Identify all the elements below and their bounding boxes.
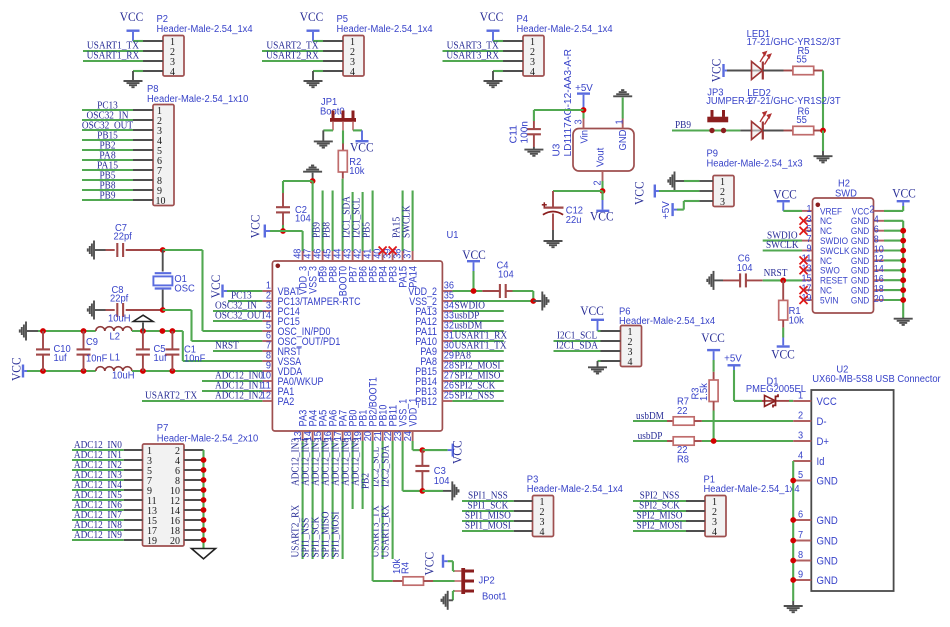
svg-text:Vin: Vin bbox=[580, 130, 591, 144]
ground at U2 bbox=[784, 606, 803, 612]
svg-text:104: 104 bbox=[498, 270, 514, 281]
svg-text:D-: D- bbox=[817, 416, 828, 428]
wire ADC12_IN9 bbox=[72, 539, 124, 541]
U2 pin 7 GND bbox=[793, 540, 811, 542]
ground at C3 bbox=[452, 481, 458, 500]
wire OSC32_IN bbox=[82, 119, 133, 121]
wire R7 to U2 D- bbox=[702, 420, 793, 422]
svg-text:104: 104 bbox=[737, 263, 753, 274]
svg-text:NRST: NRST bbox=[215, 340, 239, 352]
wire USART2_RX bbox=[262, 60, 323, 62]
wire PB8 bbox=[82, 189, 133, 191]
wire U1 bottom column x=322.6 bbox=[322, 441, 324, 559]
svg-text:1uf: 1uf bbox=[54, 353, 67, 364]
svg-text:C9: C9 bbox=[86, 337, 98, 348]
wire OSC_IN to MCU bbox=[163, 249, 203, 251]
ground at P9 pin1 bbox=[668, 172, 674, 191]
wire ADC12_IN0 bbox=[72, 449, 124, 451]
ground at LEDs bbox=[814, 156, 833, 162]
junction U2 ground column bbox=[790, 538, 796, 544]
resistor R4 10k bbox=[393, 580, 403, 582]
U1 pin 32 PA11 bbox=[442, 330, 452, 332]
MCU U1 STM32F103 LQFP48 body bbox=[272, 261, 442, 431]
ground at P5 pin4 bbox=[304, 81, 323, 87]
wire R4 to JP2 pin2 bbox=[433, 580, 455, 582]
ground above U1 pin 47 bbox=[303, 166, 322, 172]
wire P4 pin4 bbox=[493, 70, 503, 72]
wire PA8 bbox=[452, 360, 503, 362]
wire R1 to VCC bbox=[782, 328, 784, 338]
capacitor C2 104 bbox=[282, 193, 284, 208]
svg-text:3: 3 bbox=[798, 431, 804, 442]
no-connect X on U1 pin 39 bbox=[389, 247, 397, 255]
wire U1 bottom column x=392.6 bbox=[392, 441, 394, 559]
capacitor C12 22u (polarized) bbox=[553, 190, 603, 192]
svg-text:L1: L1 bbox=[110, 352, 121, 363]
wire to LED ground bbox=[822, 131, 824, 152]
U1 pin 44 BOOT0 bbox=[342, 251, 344, 261]
ground at C12 bbox=[544, 241, 563, 247]
junction P7 ground column bbox=[201, 487, 207, 493]
wire U1 bottom column x=352.6 bbox=[352, 441, 354, 509]
junction C1 top bbox=[170, 328, 176, 334]
wire ADC12_IN1 bbox=[202, 390, 262, 392]
svg-text:SPI2_MOSI: SPI2_MOSI bbox=[637, 520, 683, 532]
wire PB5 bbox=[82, 179, 133, 181]
svg-text:Header-Male-2.54_1x10: Header-Male-2.54_1x10 bbox=[147, 94, 249, 105]
wire Vin to C11 bbox=[534, 109, 584, 111]
svg-text:VCC: VCC bbox=[701, 331, 725, 345]
H2 pin 8 GND bbox=[874, 240, 885, 242]
wire usbDP bbox=[633, 440, 667, 442]
capacitor C11 100n bbox=[533, 110, 535, 121]
wire U1 pin38 PA15 stub bbox=[402, 191, 404, 252]
capacitor C1 10nF bbox=[171, 331, 173, 350]
junction C5 top bbox=[140, 328, 146, 334]
capacitor C9 10nF bbox=[83, 331, 85, 350]
U1 pin 46 PB9 bbox=[322, 251, 324, 261]
U1 pin 1 marker dot bbox=[276, 264, 281, 269]
U1 pin 39 PB3 bbox=[392, 251, 394, 261]
svg-text:D+: D+ bbox=[817, 436, 830, 448]
svg-text:+5V: +5V bbox=[575, 83, 593, 94]
U1 pin 48 VDD_3 bbox=[302, 251, 304, 261]
wire SPI1_MISO bbox=[462, 520, 514, 522]
svg-text:GND: GND bbox=[851, 295, 869, 306]
wire PB2 to R4 bbox=[372, 441, 374, 581]
svg-text:24: 24 bbox=[403, 431, 414, 441]
svg-text:22pf: 22pf bbox=[114, 232, 133, 243]
wire U1 pin43 I2C1_SDA stub bbox=[352, 192, 354, 251]
svg-text:10uH: 10uH bbox=[112, 371, 135, 382]
wire SWDIO bbox=[452, 310, 503, 312]
header P8 Header-Male-2.54_1x10 bbox=[153, 105, 174, 206]
H2 pin 9 SWCLK bbox=[802, 250, 813, 252]
junction P7 ground column bbox=[201, 477, 207, 483]
wire H2 GND pin bbox=[884, 230, 903, 232]
wire VDD_2 to VCC bbox=[452, 290, 482, 292]
H2 pin 12 GND bbox=[874, 259, 885, 261]
wire LED2 cathode to R6 bbox=[763, 130, 784, 132]
wire USART3_TX bbox=[443, 50, 504, 52]
wire OSC32_IN bbox=[213, 310, 262, 312]
junction NRST node bbox=[780, 278, 786, 284]
wire SPI1_SCK bbox=[462, 510, 514, 512]
wire VCC rail to VDDA bbox=[132, 370, 263, 372]
svg-text:4: 4 bbox=[798, 451, 804, 462]
svg-text:Header-Male-2.54_2x10: Header-Male-2.54_2x10 bbox=[157, 434, 259, 445]
wire VSS_1 to ground bbox=[402, 441, 404, 491]
wire SPI2_MOSI bbox=[452, 370, 503, 372]
wire R3 to D+ net bbox=[713, 411, 715, 442]
wire PB2 bbox=[82, 149, 133, 151]
svg-text:Header-Male-2.54_1x3: Header-Male-2.54_1x3 bbox=[707, 159, 804, 170]
svg-text:104: 104 bbox=[434, 476, 450, 487]
U1 pin 3 PC14 bbox=[262, 310, 272, 312]
svg-text:UX60-MB-5S8 USB Connector: UX60-MB-5S8 USB Connector bbox=[812, 374, 941, 385]
svg-text:PA14: PA14 bbox=[408, 266, 420, 288]
svg-text:10nF: 10nF bbox=[86, 354, 107, 365]
wire P5 pin1 bbox=[313, 40, 323, 42]
U2 pin 3 D+ bbox=[793, 440, 811, 442]
svg-text:7: 7 bbox=[798, 530, 804, 541]
U1 pin 42 PB6 bbox=[362, 251, 364, 261]
svg-text:20: 20 bbox=[170, 536, 180, 547]
wire VCC to P9 pin2 bbox=[659, 190, 699, 192]
svg-text:10k: 10k bbox=[349, 166, 364, 177]
U2 pin 4 Id bbox=[793, 460, 811, 462]
connector H2 SWD body bbox=[813, 198, 874, 313]
wire H2 GND pin bbox=[884, 279, 903, 281]
junction Vout node bbox=[600, 188, 606, 194]
svg-text:Id: Id bbox=[817, 456, 825, 468]
svg-text:Boot1: Boot1 bbox=[482, 592, 507, 603]
wire ADC12_IN2 bbox=[72, 469, 124, 471]
wire H2 GND pin bbox=[884, 289, 903, 291]
svg-text:OSC32_OUT: OSC32_OUT bbox=[215, 310, 266, 322]
wire PB9 bbox=[82, 199, 133, 201]
wire usbDM bbox=[633, 420, 667, 422]
U3 pin 2 Vout bbox=[602, 171, 604, 181]
H2 pin 5 NC bbox=[802, 230, 813, 232]
U1 pin 22 PB11 bbox=[392, 431, 394, 441]
U1 pin 9 VDDA bbox=[262, 370, 272, 372]
svg-text:SWD: SWD bbox=[835, 189, 857, 200]
junction H2 ground column bbox=[900, 248, 906, 254]
U2 pin 6 GND bbox=[793, 519, 811, 521]
wire ADC12_IN6 bbox=[72, 509, 124, 511]
wire U1 bottom column x=382.6 bbox=[382, 441, 384, 559]
svg-text:Header-Male-2.54_1x4: Header-Male-2.54_1x4 bbox=[619, 316, 716, 327]
wire USART2_TX bbox=[262, 50, 323, 52]
svg-text:4: 4 bbox=[170, 67, 175, 78]
svg-text:GND: GND bbox=[817, 476, 839, 488]
wire PB15 bbox=[82, 139, 133, 141]
svg-text:VCC: VCC bbox=[300, 10, 324, 24]
header P9 Header-Male-2.54_1x3 bbox=[713, 176, 734, 207]
junction R3/D+ node bbox=[711, 438, 717, 444]
svg-text:VCC: VCC bbox=[580, 304, 604, 318]
svg-text:USART2_RX: USART2_RX bbox=[266, 50, 319, 62]
svg-text:VCC: VCC bbox=[633, 181, 647, 205]
wire U1 pin42 I2C1_SCL stub bbox=[362, 192, 364, 251]
wire to VSSA bbox=[182, 331, 184, 361]
ground at JP1 bbox=[314, 141, 333, 147]
svg-text:VCC: VCC bbox=[249, 215, 263, 239]
U1 pin 17 PA7 bbox=[342, 431, 344, 441]
junction P7 ground column bbox=[201, 467, 207, 473]
U2 pin 9 GND bbox=[793, 579, 811, 581]
svg-text:PB8: PB8 bbox=[320, 222, 332, 238]
junction C3 bottom bbox=[420, 488, 426, 494]
U1 pin 31 PA10 bbox=[442, 340, 452, 342]
U1 pin 40 PB4 bbox=[382, 251, 384, 261]
wire U1 bottom column x=332.6 bbox=[332, 441, 334, 559]
junction H2 ground column bbox=[900, 277, 906, 283]
U1 pin 1 VBAT bbox=[262, 290, 272, 292]
wire +5V to D1 anode bbox=[734, 400, 762, 402]
wire SPI1_MOSI bbox=[462, 530, 514, 532]
svg-text:4: 4 bbox=[540, 527, 545, 538]
ground at VSS_2 bbox=[542, 292, 548, 311]
wire P4 pin1 bbox=[493, 40, 503, 42]
junction U2 ground column bbox=[790, 577, 796, 583]
wire ADC12_IN7 bbox=[72, 519, 124, 521]
svg-text:PB2: PB2 bbox=[360, 473, 372, 489]
junction LED ground column bbox=[820, 128, 826, 134]
connector U2 UX60-MB-5S8 USB body bbox=[811, 390, 893, 591]
svg-text:Header-Male-2.54_1x4: Header-Male-2.54_1x4 bbox=[704, 484, 801, 495]
svg-text:VCC: VCC bbox=[120, 10, 144, 24]
wire ADC12_IN0 bbox=[202, 380, 262, 382]
ground at C8 bbox=[88, 301, 94, 320]
header P1 Header-Male-2.54_1x4 bbox=[705, 496, 726, 537]
svg-text:USART2_TX: USART2_TX bbox=[145, 390, 197, 402]
U1 pin 26 PB13 bbox=[442, 390, 452, 392]
junction C10 top bbox=[40, 328, 46, 334]
svg-text:NRST: NRST bbox=[764, 267, 788, 279]
svg-text:LD1117AG-12-AA3-A-R: LD1117AG-12-AA3-A-R bbox=[562, 49, 574, 157]
wire VCC rail bbox=[27, 370, 96, 372]
svg-text:USART1_RX: USART1_RX bbox=[87, 50, 140, 62]
junction C9 bottom bbox=[81, 368, 87, 374]
svg-text:Header-Male-2.54_1x4: Header-Male-2.54_1x4 bbox=[517, 24, 614, 35]
svg-text:VCC: VCC bbox=[771, 347, 795, 361]
wire USART1_TX bbox=[83, 50, 143, 52]
junction OSC_OUT node bbox=[160, 307, 166, 313]
wire P2 pin1 bbox=[133, 40, 143, 42]
wire ADC12_IN3 bbox=[72, 479, 124, 481]
svg-text:5: 5 bbox=[798, 470, 804, 481]
wire NRST bbox=[213, 350, 262, 352]
wire to C2 top bbox=[283, 180, 313, 182]
junction C1 bottom bbox=[170, 368, 176, 374]
U1 pin 5 OSC_IN/PD0 bbox=[262, 330, 272, 332]
H2 pin 14 GND bbox=[874, 269, 885, 271]
wire D1 to U2 VCC bbox=[789, 400, 793, 402]
junction H2 ground column bbox=[900, 297, 906, 303]
svg-text:4: 4 bbox=[530, 67, 535, 78]
U1 pin 43 PB7 bbox=[352, 251, 354, 261]
resistor R1 10k bbox=[782, 280, 784, 300]
H2 pin 2 VCC bbox=[874, 210, 885, 212]
junction U2 ground column bbox=[790, 558, 796, 564]
svg-text:17-21/GHC-YR1S2/3T: 17-21/GHC-YR1S2/3T bbox=[747, 96, 841, 107]
junction H2 ground column bbox=[900, 228, 906, 234]
earth ground triangle at filter bbox=[142, 323, 144, 332]
U1 pin 16 PA6 bbox=[332, 431, 334, 441]
svg-text:55: 55 bbox=[796, 54, 807, 65]
wire SPI2_MISO bbox=[633, 520, 686, 522]
wire U1 pin46 PB9 stub bbox=[322, 191, 324, 252]
svg-text:GND: GND bbox=[817, 556, 839, 568]
svg-text:SPI1_MOSI: SPI1_MOSI bbox=[330, 511, 342, 557]
wire SPI1_NSS bbox=[462, 500, 514, 502]
wire H2 GND pins to ground column bbox=[884, 220, 903, 222]
wire ADC12_IN8 bbox=[72, 529, 124, 531]
wire U1 pin41 PB5 stub bbox=[372, 191, 374, 252]
junction C3 top bbox=[420, 447, 426, 453]
junction C10 bottom bbox=[40, 368, 46, 374]
svg-text:100n: 100n bbox=[519, 121, 531, 144]
wire U1 pin45 PB8 stub bbox=[332, 191, 334, 252]
VCC symbol at U3 Vout bbox=[596, 210, 609, 212]
junction P7 ground column bbox=[201, 457, 207, 463]
ground at JP2 bbox=[442, 591, 448, 610]
U1 pin 13 PA3 bbox=[302, 431, 304, 441]
header P5 Header-Male-2.54_1x4 bbox=[343, 36, 364, 77]
junction H2 ground column bbox=[900, 258, 906, 264]
wire U2 Id/GND to ground bbox=[792, 461, 794, 601]
U2 pin 2 D- bbox=[793, 420, 811, 422]
wire H2 GND pin bbox=[884, 269, 903, 271]
U1 pin 4 PC15 bbox=[262, 320, 272, 322]
svg-text:U1: U1 bbox=[447, 230, 459, 241]
jumper JP2 Boot1 bbox=[455, 570, 462, 572]
svg-text:6: 6 bbox=[798, 510, 804, 521]
wire C2 top segment bbox=[282, 181, 284, 193]
U1 pin 25 PB12 bbox=[442, 400, 452, 402]
svg-text:22u: 22u bbox=[566, 215, 582, 226]
svg-text:R8: R8 bbox=[677, 455, 690, 466]
U1 pin 38 PA15 bbox=[402, 251, 404, 261]
svg-text:3: 3 bbox=[573, 119, 584, 125]
svg-text:55: 55 bbox=[796, 115, 807, 126]
no-connect X at H2 pin bbox=[800, 217, 808, 225]
wire VCC to H2 VREF bbox=[783, 210, 802, 212]
U1 pin 18 PB0 bbox=[352, 431, 354, 441]
svg-text:OSC: OSC bbox=[174, 284, 194, 295]
junction P7 ground column bbox=[201, 517, 207, 523]
svg-text:JP2: JP2 bbox=[479, 576, 495, 587]
wire usbDM bbox=[452, 330, 503, 332]
U1 pin 37 PA14 bbox=[412, 251, 414, 261]
LED1 diode symbol bbox=[751, 70, 763, 72]
H2 pin 20 GND bbox=[874, 299, 885, 301]
wire U1 bottom column x=362.6 bbox=[362, 441, 364, 509]
junction node bbox=[160, 328, 166, 334]
VCC symbol below R1 bbox=[777, 345, 790, 347]
U1 pin 15 PA5 bbox=[322, 431, 324, 441]
H2 pin 16 GND bbox=[874, 279, 885, 281]
wire SPI2_SCK bbox=[452, 390, 503, 392]
wire USART1_RX bbox=[83, 60, 143, 62]
wire NRST to H2 RESET bbox=[763, 279, 802, 281]
header P7 Header-Male-2.54_2x10 bbox=[143, 444, 185, 546]
junction OSC_IN node bbox=[160, 247, 166, 253]
wire VDD_1 to VCC bbox=[412, 441, 414, 450]
no-connect X at H2 pin bbox=[800, 266, 808, 274]
svg-text:9: 9 bbox=[798, 570, 804, 581]
svg-text:4: 4 bbox=[628, 357, 633, 368]
svg-text:1: 1 bbox=[614, 119, 625, 125]
H2 pin 7 SWDIO bbox=[802, 240, 813, 242]
U2 pin 8 GND bbox=[793, 560, 811, 562]
wire U1 pin37 SWCLK stub bbox=[412, 191, 414, 252]
svg-text:VCC: VCC bbox=[423, 552, 437, 576]
VCC symbol at VDD_1 bbox=[452, 444, 454, 457]
wire P5 pin4 bbox=[313, 70, 323, 72]
wire SPI2_MOSI bbox=[633, 530, 686, 532]
wire +5V to P9 pin3 bbox=[677, 209, 684, 211]
H2 pin 10 GND bbox=[874, 250, 885, 252]
svg-text:PB5: PB5 bbox=[360, 222, 372, 238]
resistor R8 22 bbox=[667, 440, 673, 442]
wire to ground P4 bbox=[492, 71, 494, 80]
wire USART3_RX bbox=[443, 60, 504, 62]
wire I2C1_SCL bbox=[554, 340, 601, 342]
svg-text:GND: GND bbox=[618, 130, 629, 151]
header P3 Header-Male-2.54_1x4 bbox=[533, 496, 554, 537]
wire ADC12_IN5 bbox=[72, 499, 124, 501]
earth ground triangle at P7 bbox=[192, 549, 216, 559]
svg-text:2: 2 bbox=[798, 411, 804, 422]
capacitor C4 104 bbox=[482, 290, 500, 292]
U1 pin 45 PB8 bbox=[332, 251, 334, 261]
wire R2 to BOOT0 pin44 bbox=[342, 179, 344, 251]
svg-text:22: 22 bbox=[677, 406, 688, 417]
wire SWCLK bbox=[763, 249, 802, 251]
capacitor C5 1uf bbox=[142, 331, 144, 350]
wire U1 bottom column x=342.6 bbox=[342, 441, 344, 559]
U3 pin 3 Vin bbox=[583, 119, 585, 129]
svg-text:U3: U3 bbox=[551, 143, 563, 156]
svg-text:USART3_RX: USART3_RX bbox=[380, 505, 392, 558]
svg-text:VCC: VCC bbox=[209, 275, 223, 299]
VCC symbol at JP1 bbox=[356, 140, 369, 142]
no-connect X at H2 pin bbox=[800, 256, 808, 264]
wire JP1 pin3 to VCC bbox=[353, 129, 362, 131]
svg-text:4: 4 bbox=[350, 67, 355, 78]
wire SWDIO bbox=[763, 240, 802, 242]
wire SPI2_NSS bbox=[633, 500, 686, 502]
U2 pin 5 GND bbox=[793, 480, 811, 482]
wire H2 GND pin bbox=[884, 299, 903, 301]
wire PC13 bbox=[228, 300, 262, 302]
U1 pin 33 PA12 bbox=[442, 320, 452, 322]
svg-text:Header-Male-2.54_1x4: Header-Male-2.54_1x4 bbox=[157, 24, 254, 35]
no-connect X at H2 pin bbox=[800, 286, 808, 294]
U1 pin 27 PB14 bbox=[442, 380, 452, 382]
wire H2 GND pin bbox=[884, 259, 903, 261]
regulator U3 LD1117AG-12-AA3-A-R body bbox=[573, 129, 634, 172]
U1 pin 24 VDD_1 bbox=[412, 431, 414, 441]
wire OSC32_OUT bbox=[213, 320, 262, 322]
svg-text:PB9: PB9 bbox=[675, 119, 691, 131]
svg-text:R4: R4 bbox=[400, 561, 411, 574]
svg-text:VCC: VCC bbox=[450, 440, 464, 464]
svg-text:I2C1_SDA: I2C1_SDA bbox=[556, 340, 598, 352]
